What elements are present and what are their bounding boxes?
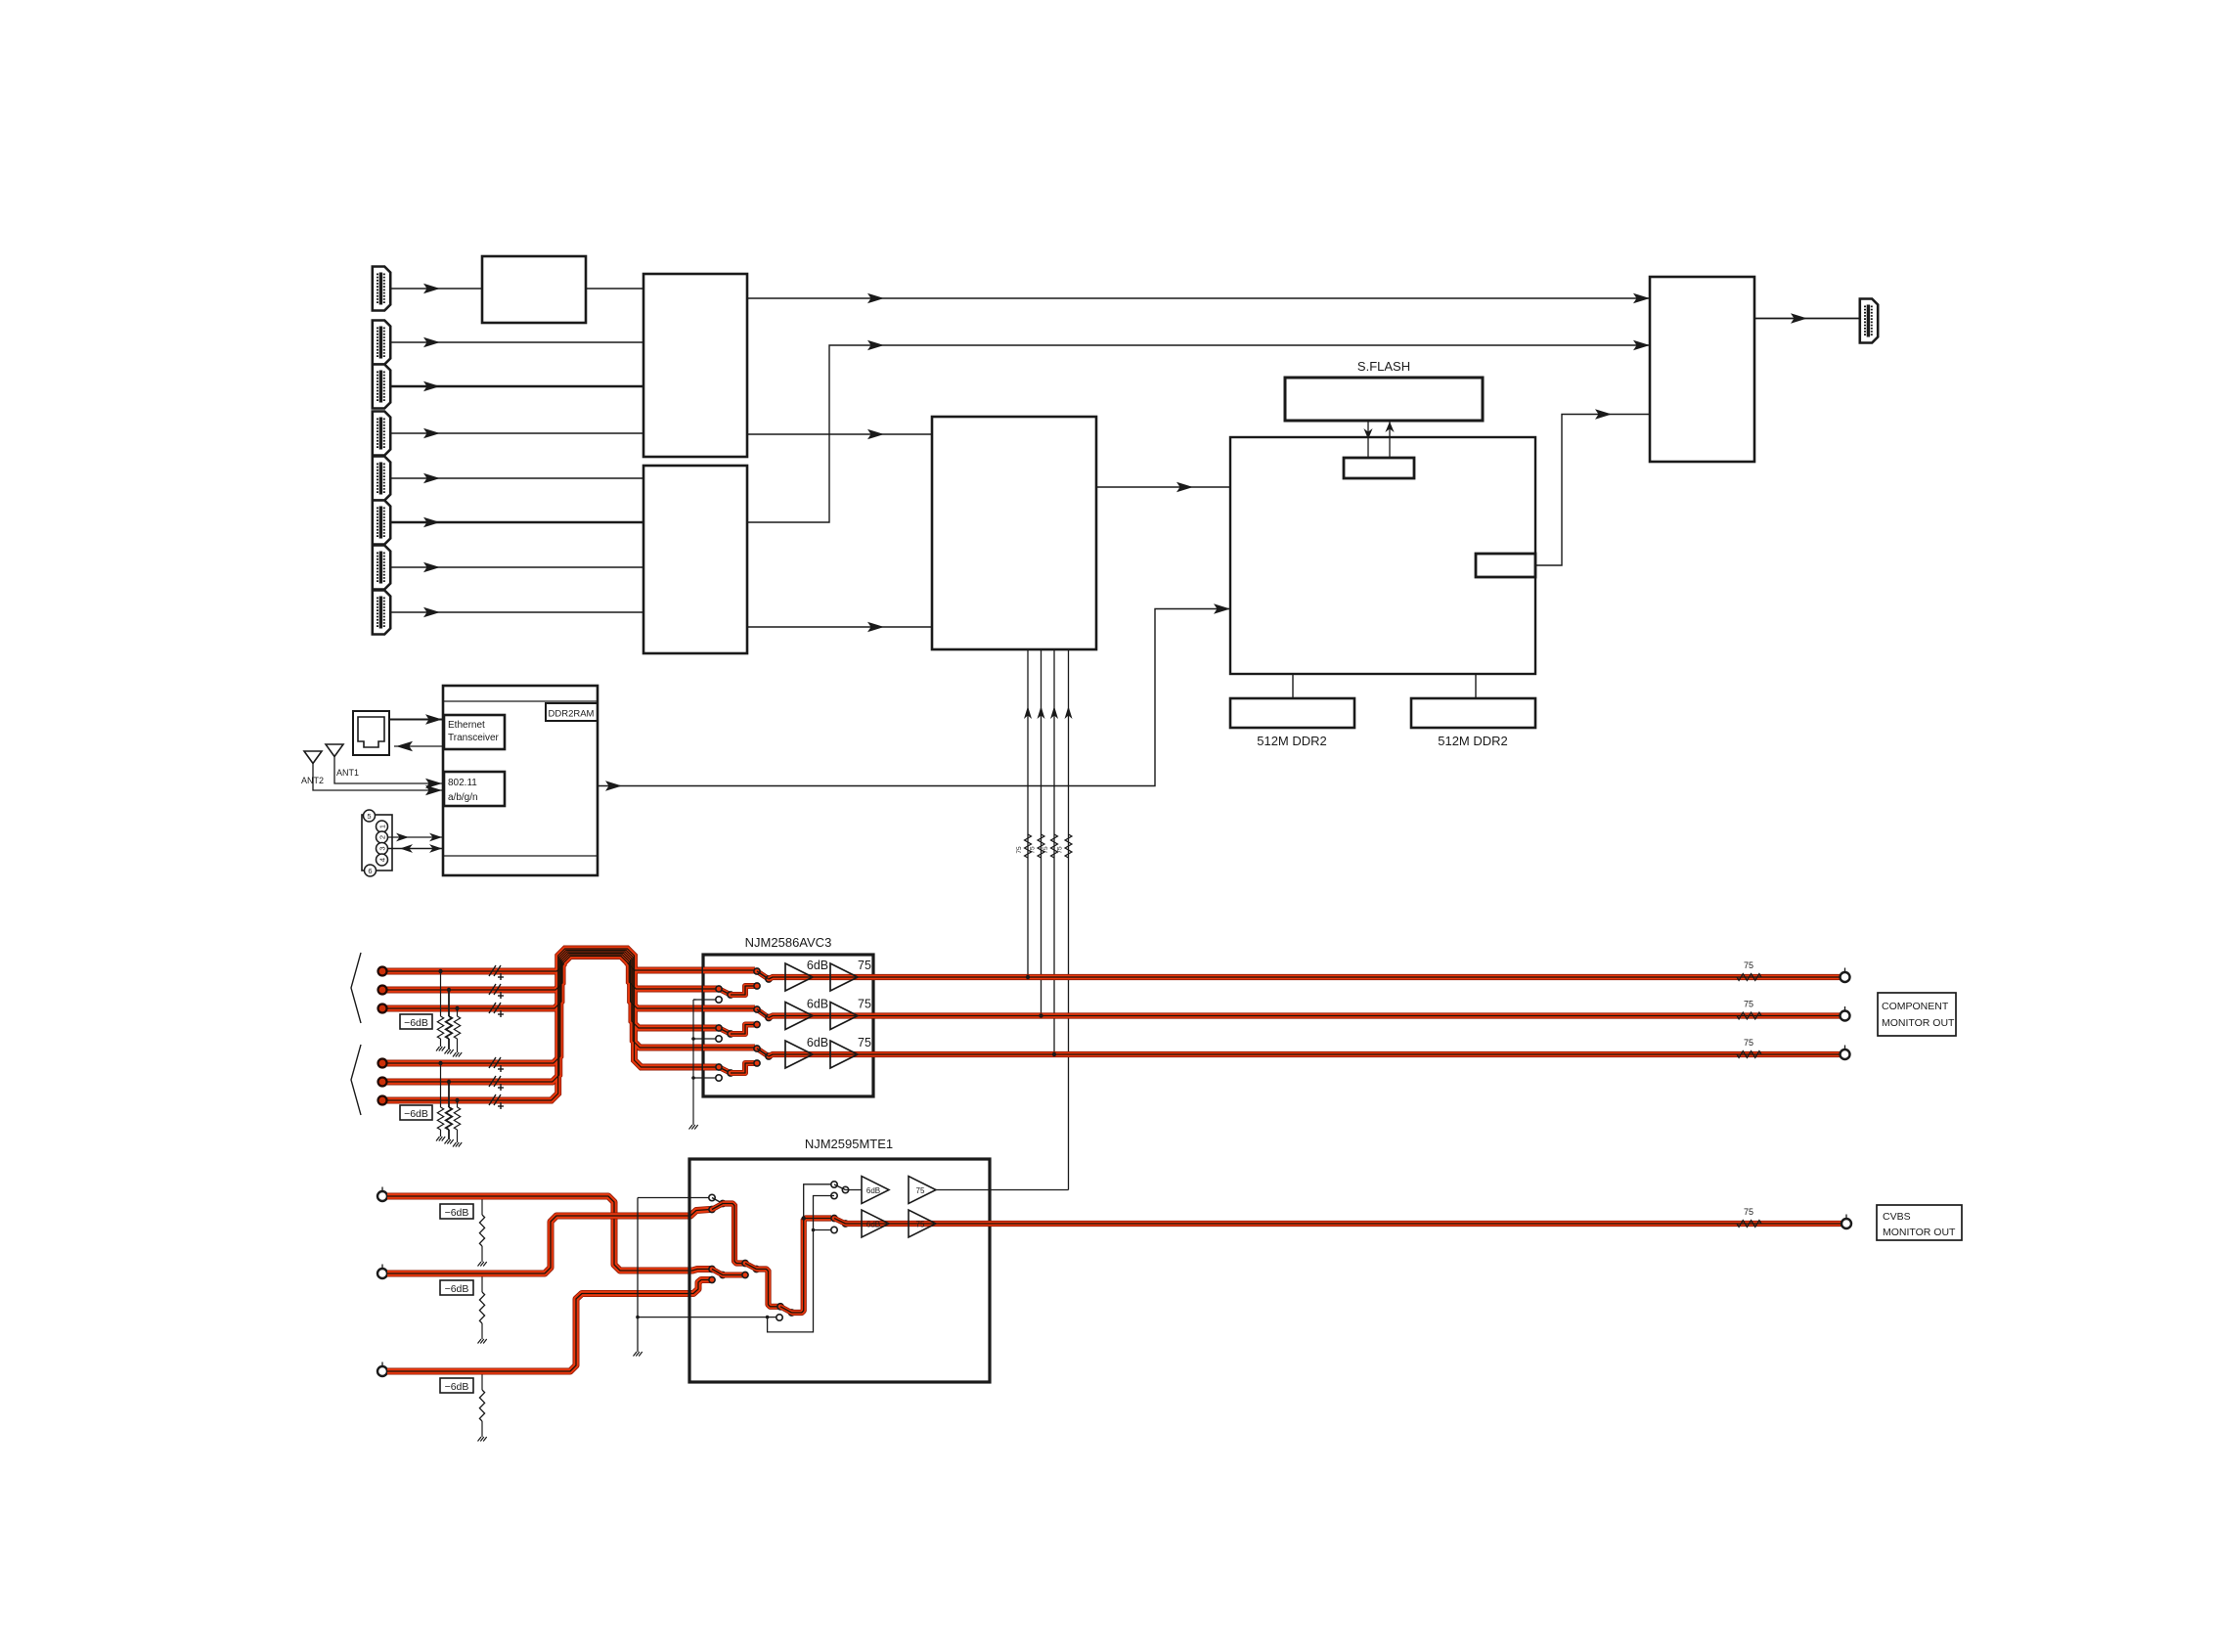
wire J3 to switch [390, 385, 643, 388]
input group bracket 2 [351, 1045, 361, 1115]
wire receiver to SoC [1096, 486, 1230, 488]
red body component input 4 [386, 952, 703, 1063]
resistor 75 on DAC line 1 [1025, 834, 1032, 858]
red wire component input 1 through cable bundle [386, 957, 703, 972]
HDMI input connector J5 [373, 457, 390, 501]
svg-text:6dB: 6dB [866, 1221, 880, 1229]
svg-text:6dB: 6dB [807, 1036, 828, 1049]
svg-text:75: 75 [1030, 846, 1037, 854]
channel 3 lower input trace [703, 1064, 717, 1071]
svg-text:2: 2 [377, 835, 386, 839]
channel 1 lower input trace [703, 986, 717, 993]
red riser to CVBS amp [792, 1219, 832, 1314]
channel 2 open contact [716, 1036, 722, 1042]
attenuator -6dB box group 2 [400, 1105, 432, 1120]
resistor 75 on DAC line 4 [1065, 834, 1072, 858]
red wire CVBS input 3 [387, 1280, 710, 1372]
wire monitor amp to DAC line 4 [936, 1189, 1069, 1191]
wire U1 to switch A [586, 288, 643, 290]
connector pin 2 [377, 831, 388, 843]
svg-text:6dB: 6dB [807, 998, 828, 1011]
wire flash write [1367, 421, 1369, 458]
channel 1 lower selector switch [719, 989, 731, 995]
wire J7 to switch [390, 566, 643, 568]
channel 1 step trace [731, 986, 755, 995]
component input 6 [378, 1096, 387, 1105]
svg-text:CVBS: CVBS [1883, 1211, 1911, 1223]
red body component input 1 [386, 957, 703, 972]
channel 3 lower selector switch [719, 1067, 731, 1073]
svg-text:6: 6 [368, 867, 372, 875]
ground input 6 [453, 1142, 462, 1147]
wire RJ45 to ethernet [389, 719, 444, 721]
red wire CVBS amplifier output [846, 1221, 1845, 1227]
red wire component input 6 through cable bundle [386, 949, 703, 1100]
wire core component input 4 [386, 952, 703, 1063]
amplifier 75 CVBS [909, 1210, 936, 1237]
component output terminal 1 [1844, 968, 1846, 973]
COMPONENT MONITOR OUT box [1878, 993, 1956, 1036]
control ground line [637, 1198, 639, 1353]
red wire component input 3 through cable bundle [386, 954, 703, 1009]
wire core component input 6 [386, 949, 703, 1100]
amplifier 75 monitor [909, 1177, 936, 1204]
connector pin 1 [377, 821, 388, 832]
connector pin 6 [365, 865, 377, 876]
svg-text:75: 75 [1042, 846, 1049, 854]
wire SoC to DDR2 A [1292, 674, 1294, 698]
wire switch A out2 to receiver [747, 433, 932, 435]
amplifier 75 channel 1 [830, 963, 858, 991]
video encoder switch NJM2595MTE1 U12 [689, 1159, 990, 1382]
channel 1 upper input trace [703, 967, 755, 974]
wire flash read [1389, 421, 1391, 458]
red wire channel 1 amplifier output [769, 977, 1844, 979]
svg-text:Transceiver: Transceiver [448, 733, 500, 743]
ground CVBS input 1 [478, 1262, 487, 1267]
HDMI output connector J9 [1860, 299, 1878, 343]
channel 3 step trace [731, 1063, 755, 1073]
HDMI input connector J4 [373, 412, 390, 456]
component input 5 [378, 1078, 387, 1087]
DAC monitor line 4 [1068, 649, 1070, 1190]
control net wire [768, 1196, 834, 1332]
monitor amp upper chain switch [831, 1182, 837, 1187]
amplifier 6dB CVBS [862, 1210, 889, 1237]
network module bottom line [443, 855, 598, 857]
resistor 75 on DAC line 3 [1051, 834, 1058, 858]
video amp NJM2586AVC3 U11 [703, 955, 873, 1096]
svg-text:NJM2595MTE1: NJM2595MTE1 [805, 1137, 893, 1151]
network module U10 [443, 686, 598, 875]
ground input 1 [436, 1047, 445, 1051]
HDMI switch B U3 [643, 466, 747, 653]
wire J5 to switch [390, 477, 643, 479]
control connector J11 [362, 815, 392, 871]
component input 4 [378, 1059, 387, 1068]
wire switch A out1 to transmitter [747, 297, 1650, 299]
wire transmitter to HDMI out [1754, 318, 1860, 320]
wire J4 to switch [390, 432, 643, 434]
resistor input 6 to ground [455, 1098, 459, 1102]
red wire CVBS input 2 [387, 1210, 710, 1274]
wire SoC video out to transmitter [1535, 415, 1650, 566]
red body component input 6 [386, 949, 703, 1100]
red cascade g1 to g2 [723, 1204, 743, 1264]
resistor 75 output channel 2 [1737, 1012, 1761, 1019]
switch group 2 cascade side [742, 1260, 748, 1266]
channel 1 control stub [693, 999, 716, 1001]
amplifier 6dB channel 1 [785, 963, 813, 991]
tap to monitor amp [802, 1216, 806, 1220]
svg-text:75: 75 [1057, 846, 1064, 854]
wire network module to SoC [598, 609, 1230, 786]
resistor input 2 to ground [447, 988, 451, 992]
CVBS input 2 [381, 1265, 383, 1270]
wire J2 to switch [390, 341, 643, 343]
channel 3 main selector switch [757, 1049, 769, 1056]
svg-text:75: 75 [1744, 1207, 1753, 1217]
SoC main processor U5 [1230, 437, 1535, 674]
512M DDR2 memory U8 [1230, 698, 1354, 728]
red wire CVBS input 1 [387, 1196, 710, 1271]
wire ANT1 to 802.11 [334, 757, 444, 784]
serial flash memory U6 [1285, 378, 1483, 421]
svg-text:4: 4 [377, 858, 386, 862]
svg-text:75: 75 [858, 998, 871, 1011]
svg-text:75: 75 [1016, 846, 1023, 854]
amplifier 6dB channel 3 [785, 1041, 813, 1068]
svg-text:S.FLASH: S.FLASH [1357, 359, 1410, 374]
wire ANT2 to 802.11 [313, 764, 444, 791]
wire core component input 2 [386, 955, 703, 990]
svg-text:NJM2586AVC3: NJM2586AVC3 [745, 935, 832, 950]
HDMI input connector J8 [373, 591, 390, 635]
red body component input 5 [386, 951, 703, 1083]
svg-text:75: 75 [1744, 1038, 1753, 1048]
switch group 3 [777, 1304, 783, 1310]
svg-text:75: 75 [858, 1036, 871, 1049]
CVBS MONITOR OUT box [1877, 1205, 1962, 1240]
red wire channel 3 amplifier output [769, 1054, 1844, 1056]
DDR2RAM block [546, 703, 598, 721]
resistor 75 output channel 1 [1737, 974, 1761, 981]
svg-text:75: 75 [858, 959, 871, 972]
svg-text:512M DDR2: 512M DDR2 [1438, 734, 1508, 748]
resistor input 3 to ground [455, 1006, 459, 1010]
antenna ANT2 [304, 751, 322, 764]
component input 3 [378, 1005, 387, 1013]
channel 3 upper input trace [703, 1045, 755, 1051]
junction DAC line 2 [1039, 1013, 1042, 1017]
CVBS output terminal [1845, 1215, 1847, 1220]
red wire channel 2 amplifier output [769, 1016, 1844, 1018]
channel 2 lower selector switch [719, 1028, 731, 1034]
antenna ANT1 [326, 744, 343, 757]
wire ethernet to RJ45 [394, 745, 444, 747]
svg-text:802.11: 802.11 [448, 778, 477, 788]
CVBS input 3 [381, 1362, 383, 1367]
red body component input 2 [386, 955, 703, 990]
channel 2 upper input trace [703, 1005, 755, 1012]
termination mark input 1 [489, 965, 504, 980]
channel 1 main selector switch [757, 971, 769, 979]
HDMI input connector J3 [373, 365, 390, 409]
channel 2 main selector switch [757, 1009, 769, 1018]
svg-text:DDR2RAM: DDR2RAM [549, 709, 595, 720]
CVBS input 1 [381, 1187, 383, 1192]
svg-text:MONITOR OUT: MONITOR OUT [1882, 1017, 1955, 1029]
ground CVBS input 3 [478, 1437, 487, 1442]
junction DAC line 1 [1026, 975, 1030, 979]
red wire component input 4 through cable bundle [386, 952, 703, 1063]
svg-text:512M DDR2: 512M DDR2 [1257, 734, 1327, 748]
wire SoC to DDR2 B [1475, 674, 1477, 698]
svg-text:Ethernet: Ethernet [448, 720, 485, 731]
HDMI input connector J7 [373, 546, 390, 590]
termination mark input 4 [489, 1057, 504, 1072]
wire switch B out2 to receiver [747, 626, 932, 628]
channel 2 step trace [731, 1025, 755, 1035]
red body component input 3 [386, 954, 703, 1009]
resistor input 4 to ground [438, 1061, 442, 1065]
svg-text:75: 75 [916, 1221, 925, 1229]
HDMI receiver U4 [932, 417, 1096, 649]
red cascade g2 to g3 [757, 1270, 779, 1307]
flash controller block [1344, 458, 1414, 478]
attenuator -6dB box CVBS 3 [440, 1378, 473, 1393]
wire J8 to switch [390, 611, 643, 613]
resistor 75 on DAC line 2 [1038, 834, 1044, 858]
switch group 1 [709, 1194, 715, 1200]
amplifier 75 channel 3 [830, 1041, 858, 1068]
RJ45 connector J10 [353, 711, 389, 755]
ground input 3 [453, 1052, 462, 1057]
svg-text:3: 3 [377, 846, 386, 850]
ground control net [634, 1352, 643, 1357]
ground input 2 [445, 1049, 454, 1054]
switch group 2 input side [709, 1266, 715, 1272]
resistor 75 CVBS output [1737, 1221, 1761, 1228]
svg-text:a/b/g/n: a/b/g/n [448, 792, 478, 803]
wire pin3 to module [388, 848, 444, 850]
DAC monitor line 2 [1041, 649, 1042, 1016]
DAC monitor line 3 [1053, 649, 1055, 1054]
wire switch B out1 to transmitter [747, 345, 1650, 522]
svg-text:−6dB: −6dB [404, 1108, 428, 1120]
CVBS amp input switch [831, 1215, 837, 1221]
svg-text:−6dB: −6dB [445, 1283, 469, 1295]
termination mark input 6 [489, 1094, 504, 1109]
svg-text:COMPONENT: COMPONENT [1882, 1001, 1949, 1012]
monitor amp upper chain wire [846, 1189, 863, 1191]
amplifier 6dB monitor [862, 1177, 889, 1204]
svg-text:6dB: 6dB [807, 959, 828, 972]
component output terminal 3 [1844, 1046, 1846, 1050]
attenuator -6dB box group 1 [400, 1014, 432, 1029]
HDMI input connector J1 [373, 267, 390, 311]
termination mark input 5 [489, 1076, 504, 1091]
input group bracket 1 [351, 953, 361, 1023]
DAC monitor line 1 [1027, 649, 1029, 977]
svg-text:1: 1 [377, 825, 386, 828]
svg-text:75: 75 [1744, 1000, 1753, 1009]
512M DDR2 memory U9 [1411, 698, 1535, 728]
switch 3 control wire [638, 1317, 776, 1318]
svg-text:75: 75 [1744, 960, 1753, 970]
802.11 block [444, 772, 505, 806]
svg-text:75: 75 [916, 1186, 925, 1195]
component output terminal 2 [1844, 1006, 1846, 1011]
resistor CVBS input 1 to ground [480, 1194, 484, 1198]
ground NJM2586AVC3 control [689, 1125, 698, 1130]
HDMI output block on SoC [1476, 554, 1535, 577]
component input 2 [378, 986, 387, 995]
connector pin 4 [377, 854, 388, 866]
red wire component input 2 through cable bundle [386, 955, 703, 990]
HDMI input connector J6 [373, 501, 390, 545]
ground CVBS input 2 [478, 1339, 487, 1344]
HDMI equalizer block U1 [482, 256, 586, 323]
channel 3 open contact [716, 1075, 722, 1081]
attenuator -6dB box CVBS 2 [440, 1280, 473, 1295]
red wire component input 5 through cable bundle [386, 951, 703, 1083]
ground input 4 [436, 1137, 445, 1141]
component input 1 [378, 967, 387, 976]
svg-text:−6dB: −6dB [404, 1017, 428, 1029]
junction DAC line 3 [1052, 1052, 1056, 1056]
resistor CVBS input 3 to ground [480, 1369, 484, 1373]
termination mark input 3 [489, 1003, 504, 1017]
channel 2 lower input trace [703, 1025, 717, 1032]
channel 3 control stub [693, 1077, 716, 1079]
resistor CVBS input 2 to ground [480, 1272, 484, 1275]
svg-text:5: 5 [367, 812, 371, 821]
wire pin2 to module [388, 836, 444, 838]
svg-text:ANT1: ANT1 [336, 768, 359, 778]
termination mark input 2 [489, 984, 504, 999]
network module title line [443, 700, 598, 702]
svg-text:MONITOR OUT: MONITOR OUT [1883, 1227, 1956, 1238]
NJM2586AVC3 control line [692, 1000, 694, 1125]
wire core component input 3 [386, 954, 703, 1009]
wire J6 to switch [390, 521, 643, 524]
resistor input 1 to ground [438, 969, 442, 973]
HDMI switch A U2 [643, 274, 747, 457]
wire core component input 5 [386, 951, 703, 1083]
connector pin 3 [377, 843, 388, 855]
channel 1 open contact [716, 997, 722, 1003]
amplifier 75 channel 2 [830, 1003, 858, 1030]
resistor 75 output channel 3 [1737, 1051, 1761, 1058]
amplifier 6dB channel 2 [785, 1003, 813, 1030]
Ethernet Transceiver block [444, 715, 505, 749]
svg-text:6dB: 6dB [866, 1186, 880, 1195]
wire J1 to switch [390, 288, 482, 290]
ground input 5 [445, 1139, 454, 1144]
connector pin 5 [364, 810, 376, 822]
HDMI input connector J2 [373, 321, 390, 365]
svg-text:−6dB: −6dB [445, 1207, 469, 1219]
channel 2 control stub [693, 1038, 716, 1040]
svg-text:−6dB: −6dB [445, 1381, 469, 1393]
attenuator -6dB box CVBS 1 [440, 1204, 473, 1219]
wire core component input 1 [386, 957, 703, 972]
HDMI transmitter U7 [1650, 277, 1754, 462]
resistor input 5 to ground [447, 1080, 451, 1084]
